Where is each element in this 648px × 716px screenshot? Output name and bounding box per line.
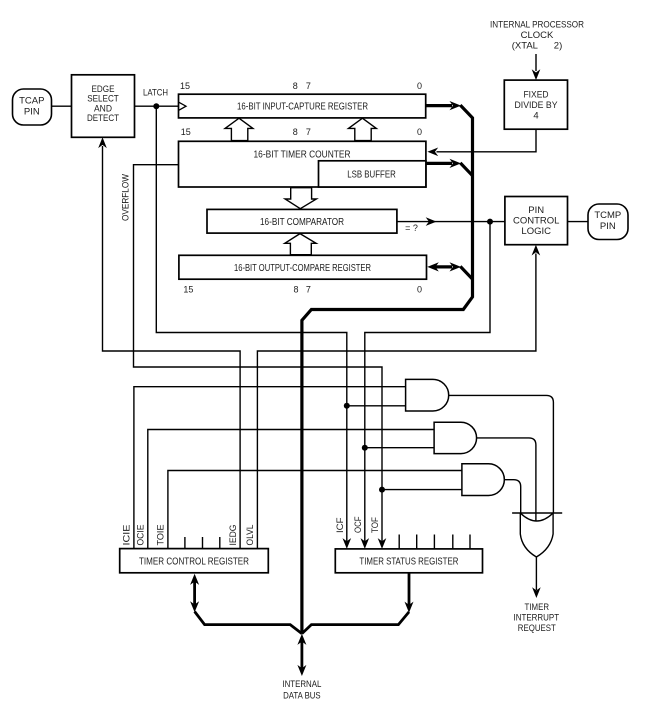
bus internal data bus double arrow: [300, 640, 303, 670]
register timer status: [335, 549, 482, 573]
svg-text:0: 0: [417, 285, 422, 295]
svg-text:TIMER CONTROL REGISTER: TIMER CONTROL REGISTER: [139, 556, 249, 568]
svg-text:PIN: PIN: [24, 107, 40, 118]
register 16-bit timer counter: [179, 141, 426, 187]
bus control register to data bus (double arrow): [193, 581, 196, 605]
svg-text:15: 15: [181, 127, 191, 137]
data bus double arrow output-compare register: [434, 265, 452, 268]
svg-text:DATA BUS: DATA BUS: [283, 690, 321, 700]
wire ICF: latch down, right, down into status register: [156, 106, 346, 543]
svg-text:0: 0: [417, 81, 422, 91]
wire TCAP to edge detect: [52, 105, 72, 107]
svg-text:16-BIT TIMER COUNTER: 16-BIT TIMER COUNTER: [254, 149, 351, 161]
svg-text:ICIE: ICIE: [122, 525, 132, 546]
junction latch: [153, 103, 159, 109]
svg-text:CONTROL: CONTROL: [513, 216, 559, 227]
wire ICIE tick handled above; short ticks: [184, 537, 186, 549]
wire OCF: comparator junction down, left, down into status register: [365, 222, 490, 543]
wire OCF branch to gate2: [365, 447, 434, 449]
junction ICF to gate1: [344, 403, 350, 409]
svg-text:TIMER: TIMER: [525, 602, 550, 612]
wire IEDG control register to edge detect: [103, 146, 241, 549]
junction OCF to gate2: [362, 445, 368, 451]
svg-text:TIMER STATUS REGISTER: TIMER STATUS REGISTER: [359, 556, 458, 568]
wire clock to divider with arrow: [535, 54, 537, 71]
svg-text:= ?: = ?: [405, 223, 418, 233]
svg-text:ICF: ICF: [335, 517, 345, 533]
wire TOIE control register to gate3: [168, 471, 462, 549]
data bus arrow from LSB buffer: [426, 162, 452, 165]
block LSB buffer: [319, 161, 426, 187]
wire gate3 output to or gate: [504, 480, 520, 513]
node TCAP pin: [13, 89, 52, 125]
and gate U2 (ICF and ICIE): [406, 379, 449, 411]
wire gate1 output to or gate: [449, 395, 554, 513]
svg-text:LOGIC: LOGIC: [521, 226, 551, 237]
svg-text:8: 8: [293, 285, 298, 295]
wire comparator output with arrow to pin control: [397, 221, 505, 223]
svg-text:INTERNAL PROCESSOR: INTERNAL PROCESSOR: [490, 20, 584, 31]
block U1 edge select and detect: [72, 75, 135, 138]
svg-text:16-BIT COMPARATOR: 16-BIT COMPARATOR: [260, 216, 344, 228]
svg-text:15: 15: [180, 81, 190, 91]
svg-text:OLVL: OLVL: [245, 525, 255, 546]
junction TOF to gate3: [379, 487, 385, 493]
status register bits: short ticks: [398, 535, 400, 549]
svg-text:LSB BUFFER: LSB BUFFER: [347, 168, 396, 180]
svg-text:7: 7: [306, 127, 311, 137]
data bus thick: input-capture out, right rail, bottom rail, center bus: [426, 104, 452, 107]
svg-text:15: 15: [183, 285, 193, 295]
hollow arrow counter to input-capture (right): [349, 118, 377, 140]
svg-text:4: 4: [533, 110, 538, 121]
hollow arrow output-compare up to comparator: [285, 234, 316, 255]
svg-text:PIN: PIN: [528, 205, 544, 216]
clock chevron on input-capture register: [179, 102, 187, 110]
block fixed divide by 4: [504, 80, 567, 129]
svg-text:LATCH: LATCH: [143, 88, 168, 98]
svg-text:16-BIT INPUT-CAPTURE REGISTER: 16-BIT INPUT-CAPTURE REGISTER: [237, 101, 368, 113]
wire TOF branch to gate3: [382, 489, 462, 491]
bus status register to data bus (down arrow): [408, 573, 411, 605]
svg-text:REQUEST: REQUEST: [518, 623, 556, 633]
wire gate2 output to or gate: [477, 438, 536, 521]
svg-text:TCAP: TCAP: [19, 96, 44, 107]
svg-text:INTERNAL: INTERNAL: [282, 679, 321, 689]
wire ICF branch to gate1: [347, 405, 406, 407]
svg-text:TOF: TOF: [370, 517, 380, 533]
svg-text:8: 8: [293, 81, 298, 91]
svg-text:OCIE: OCIE: [136, 525, 146, 546]
and gate U4 (TOF and TOIE): [462, 464, 504, 496]
svg-text:IEDG: IEDG: [228, 525, 238, 546]
wire OCIE control register to gate2: [148, 430, 434, 549]
svg-text:16-BIT OUTPUT-COMPARE REGISTER: 16-BIT OUTPUT-COMPARE REGISTER: [234, 262, 371, 274]
node TCMP pin: [588, 204, 628, 240]
wire divider to timer counter with arrow: [437, 129, 537, 152]
svg-text:PIN: PIN: [600, 221, 616, 232]
comparator 16-bit: [207, 209, 397, 233]
svg-text:OCF: OCF: [353, 516, 363, 533]
svg-text:7: 7: [306, 285, 311, 295]
svg-text:INTERRUPT: INTERRUPT: [514, 613, 560, 623]
wire OLVL control register to pin control: [257, 254, 536, 549]
svg-text:DETECT: DETECT: [87, 113, 119, 124]
wire or gate output, timer interrupt request: [535, 557, 537, 590]
svg-text:TCMP: TCMP: [594, 210, 621, 221]
svg-text:DIVIDE BY: DIVIDE BY: [515, 100, 559, 111]
junction comparator output: [487, 219, 493, 225]
register timer control: [120, 549, 269, 573]
svg-text:(XTAL 2): (XTAL 2): [512, 40, 563, 51]
svg-text:7: 7: [306, 81, 311, 91]
wire overflow: timer counter left, down: [134, 165, 383, 543]
hollow arrow counter to input-capture (left): [225, 118, 253, 140]
wire ICIE control register to gate1: [134, 387, 406, 549]
register 16-bit output-compare: [179, 255, 427, 279]
hollow arrow counter down to comparator: [285, 188, 316, 209]
svg-text:TOIE: TOIE: [156, 525, 166, 546]
svg-text:0: 0: [417, 127, 422, 137]
svg-text:8: 8: [293, 127, 298, 137]
svg-text:OVERFLOW: OVERFLOW: [121, 174, 132, 221]
block pin control logic: [505, 197, 568, 245]
or gate U5: [512, 512, 562, 514]
wire edge detect to input-capture register, node LATCH: [135, 105, 179, 107]
and gate U3 (OCF and OCIE): [434, 422, 476, 453]
wire pin control to TCMP: [568, 221, 589, 223]
svg-text:FIXED: FIXED: [524, 89, 549, 100]
register 16-bit input-capture: [179, 94, 426, 118]
